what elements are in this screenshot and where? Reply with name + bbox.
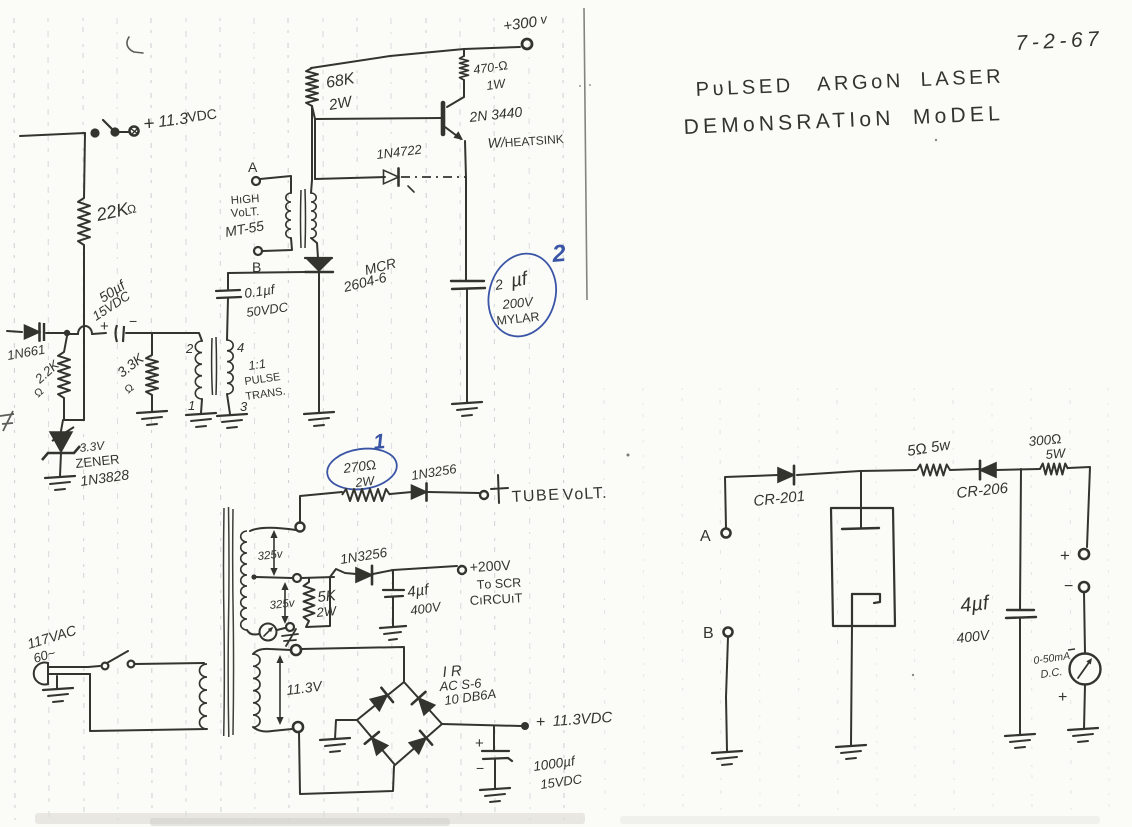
switch S1 output terminal [130,127,139,136]
wire gate to 0.1uF [227,273,229,289]
svg-text:2W: 2W [315,603,339,620]
wire S2 to primary [135,663,204,664]
wire 11.3 top to bridge [301,647,404,681]
bridge diode BR [409,738,426,754]
wire 1N4722 left [315,177,385,179]
svg-text:2W: 2W [354,474,377,490]
wire 5ohm to CR-206 [950,469,979,470]
laser tube cathode lead [851,626,852,745]
wire 1000uF to ground [494,759,496,789]
wire plug ground tap [56,676,58,689]
capacitor 1000uF plates [482,751,512,761]
transistor Q1 emitter [445,127,461,139]
wire pin1 to ground [201,399,202,413]
wire centertap terminal right [301,577,334,578]
resistor 300ohm 5W [1040,464,1068,475]
resistor 5ohm 5W [917,465,950,476]
wire CR-206 to 300ohm [996,469,1040,470]
MT-55 secondary coil [311,193,316,238]
11.3V secondary top curve [253,649,291,654]
terminal HV top [296,523,305,532]
MT-55 primary coil [286,193,291,238]
wire MT-55 primary to B [263,238,292,251]
blue circled 1 annotation [325,444,400,493]
diode 1N4722 [384,170,399,184]
svg-text:1:1: 1:1 [247,357,266,373]
terminal B [254,247,262,255]
bridge edge TR [404,682,442,724]
wire 4uFb to ground [1019,618,1021,734]
resistor 3.3K drop [151,333,153,355]
node dot +11.3VDC [521,722,529,730]
switch S2 lever [107,651,128,663]
transistor Q1 2N3440 base bar [441,103,446,134]
bridge edge TL [357,682,404,720]
plug prong wires [48,666,88,668]
wire gate row [228,272,305,273]
svg-text:+200V: +200V [469,557,511,575]
svg-text:−: − [1064,578,1073,595]
325V arrow upper [273,534,275,572]
wire node to hop [67,333,78,335]
svg-text:2: 2 [185,341,194,356]
meter M1 needle [264,628,272,636]
svg-text:7-2-67: 7-2-67 [1015,27,1104,55]
ground under tube [836,745,866,747]
transistor Q1 base wire [315,118,441,119]
wire 1N3256a to tube volt terminal [428,492,479,493]
bridge diode BL [372,738,388,755]
SCR MCR2604-6 triangle [307,259,331,271]
meter M1 circle [260,624,277,641]
switch S1 mid contact [110,127,119,136]
svg-text:−: − [129,313,137,329]
small terminal near meter [286,623,294,631]
terminal 11.3V bottom [293,722,303,732]
diode CR-206 [980,463,996,477]
stray tick below 1N4722 [408,186,414,192]
ground bridge left [320,738,350,740]
wire 1N3256b to +200V [373,566,457,574]
wire A up to CR-201 [725,475,778,528]
svg-text:B: B [703,625,714,642]
wire C 50uF to pin2 corner [126,333,202,341]
ground under 1000uF [480,788,510,790]
HV winding top curve [250,528,296,531]
wire HV top to 270 [300,492,342,523]
laser tube envelope [831,508,895,626]
plus mark tube volt [491,475,508,503]
meter M2 needle [1078,661,1090,678]
wire MT-55 secondary to SCR [311,238,318,258]
terminal +200V [458,566,466,574]
wire 300ohm to + terminal [1068,467,1090,547]
svg-text:4µf: 4µf [959,592,992,617]
stray pen mark top-left [127,37,143,53]
blue circled 2 annotation [479,246,566,345]
wire to 1000uF [493,726,495,750]
resistor 22K [78,198,90,245]
wire meter to small terminal [277,628,285,630]
wire switch to R 22K [84,133,85,198]
wire 1N661 to node [46,332,66,334]
ground under meter [1068,728,1098,730]
SCR cathode bar [305,271,333,273]
resistor 270ohm [342,489,390,501]
wire top rail to +300V [311,47,520,68]
SCR anode bar [305,257,332,259]
HV winding bottom curve [247,630,259,635]
svg-text:1W: 1W [485,76,507,93]
wire center tap to terminal [256,577,292,578]
diode 1N661 [25,325,40,339]
power transformer core [224,507,234,737]
stray mark left edge [0,411,14,431]
switch S1 wire [119,131,129,133]
wire CR-201 to 5ohm [797,470,916,475]
svg-text:Tο SCR: Tο SCR [476,576,521,592]
switch S1 lever [103,120,114,131]
wire 270 to 1N3256a [390,492,412,494]
wire junction 68K-base [312,106,315,119]
ground under pin3 [217,414,247,416]
wire bridge out [442,724,521,726]
wire 0.1uF to pin4 [227,298,228,340]
wire emitter down [465,141,466,280]
resistor 68K [306,68,318,106]
svg-text:−: − [476,760,484,776]
faint specks [579,85,581,87]
zener 3.3V 1N3828 [61,420,63,431]
resistor 5K drop [308,578,310,582]
laser tube cathode [852,594,880,603]
pulse transformer core [212,337,217,395]
wire MT-55 secondary top [311,106,312,193]
wire pin3 to ground [227,394,230,414]
ground under pin1 [186,413,216,415]
svg-text:TUBE: TUBE [511,486,560,506]
svg-text:+: + [1058,689,1067,706]
svg-text:+: + [475,735,484,752]
center tap dot [251,574,256,579]
page fold edge line [584,8,587,300]
terminal output minus [1079,582,1089,592]
strike ground near meter [282,629,298,646]
svg-text:+: + [536,714,545,731]
capacitor 4uF b plates [1006,610,1036,618]
plug P1 [34,663,48,685]
wire 2uF to ground [466,289,468,402]
power transformer primary coil [200,664,207,729]
ground under zener [45,476,75,478]
wire to switch S1 [20,133,85,136]
pulse transformer primary coil [195,341,202,399]
junction 4uF b [1020,469,1021,609]
svg-text:+: + [143,113,156,135]
power transformer 11.3V secondary coil [253,654,260,727]
wire SCR cathode to ground [318,272,320,412]
svg-text:1: 1 [188,398,195,413]
ground under SCR [304,412,334,414]
svg-text:VοLT.: VοLT. [562,485,608,504]
capacitor 50uF plates [116,325,118,342]
ground under 4uF b [1005,734,1035,736]
svg-text:HıGH: HıGH [230,193,260,207]
capacitor 0.1uF plates [216,290,241,298]
switch S2 contact [128,661,135,668]
svg-text:11.3: 11.3 [157,110,189,131]
switch S1 pole dot [90,128,99,137]
wire 4uFa to ground [392,597,394,626]
wire primary bottom return [90,674,207,731]
diode 1N3256 a [412,485,427,499]
svg-text:A: A [248,159,258,175]
ground under B [712,751,742,753]
resistor 3.3K [146,355,158,395]
wire A to MT-55 primary [260,176,291,193]
bridge edge BR [395,724,442,765]
capacitor 2uF plates [451,281,485,289]
MT-55 core [301,189,306,248]
wire prong to switch [88,666,100,667]
resistor 5K [304,582,315,621]
svg-text:5W: 5W [1045,445,1067,462]
wire minus to meter [1084,592,1085,653]
11.3V secondary bottom curve [253,727,292,732]
wire into 1N661 [7,331,22,332]
wire R 22K down [83,245,85,420]
svg-text:A: A [700,528,711,545]
svg-text:+: + [1060,546,1070,565]
wire meter to ground [1084,685,1085,729]
wire base to 1N4722 node [314,119,316,179]
wire step to 1N3256b [330,569,356,577]
wire 3.3K to ground [151,395,153,412]
ground under 4uF a [380,626,406,628]
terminal TUBE VOLT [480,491,488,499]
node junction dot [64,330,70,336]
wire 5K bottom loop [306,577,330,627]
terminal 11.3V top [291,645,301,655]
resistor 2.2K [58,352,70,398]
11.3V arrow [279,659,281,721]
terminal center tap [293,574,301,582]
diode 1N3256 b [356,568,372,582]
wire node to 2.2K [64,336,67,352]
terminal output plus [1079,549,1089,559]
325V arrow lower [284,586,286,620]
wire 1N4722 dashes [401,176,466,178]
wire 2.2K to corner [64,398,84,420]
terminal +300V [522,39,532,49]
switch S2 pole [102,663,109,670]
wire B to ground [726,637,728,751]
wire hop over vertical [78,326,92,334]
bridge edge BL [357,720,395,765]
wire bridge left to ground [335,720,357,739]
svg-text:4: 4 [237,340,244,355]
meter M2 circle [1070,654,1101,685]
laser tube anode plate [842,528,879,529]
laser tube anode lead [860,471,862,528]
junction wire 4uF a [392,570,394,589]
svg-text:1: 1 [372,430,386,454]
wire zener to ground [60,453,61,476]
bridge diode TR [419,698,435,715]
wire 11.3 bottom to bridge [299,732,394,794]
ground under plug [43,688,73,690]
svg-text:CıRCUıT: CıRCUıT [469,590,522,608]
resistor 470ohm [463,49,465,56]
bridge diode TL [370,695,387,711]
pulse transformer secondary coil [227,340,233,394]
capacitor 4uF a plates [383,590,404,597]
ground under 3.3K [137,411,167,413]
ground under 2uF [452,402,482,404]
wire hop to C 50uF [92,333,106,334]
wire 470 to collector [447,80,464,107]
diode CR-201 [778,468,794,482]
HV secondary winding [241,531,247,630]
